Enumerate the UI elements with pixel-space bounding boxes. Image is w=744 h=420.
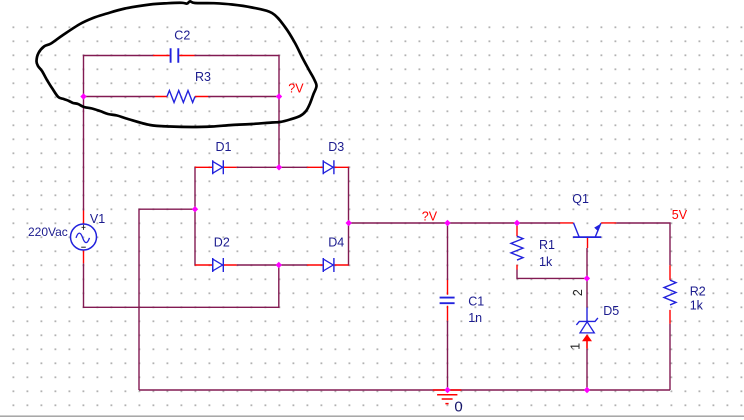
svg-text:2: 2	[571, 289, 585, 296]
junction node bridge right	[346, 220, 352, 226]
wire R3 row	[84, 96, 280, 98]
junction node bridge top	[276, 164, 282, 170]
wire top rail C2 row	[84, 55, 280, 57]
junction node Q1 base / D5 top	[584, 275, 590, 281]
svg-text:R2: R2	[690, 285, 706, 299]
wire Q1 collector to 5V rail	[616, 223, 670, 265]
resistor R3	[155, 91, 208, 103]
wire right rail below R2	[669, 324, 671, 390]
transistor Q1	[560, 223, 616, 248]
junction node at R3 right / ?V	[276, 93, 282, 99]
svg-text:Q1: Q1	[572, 192, 589, 206]
capacitor C2	[153, 48, 195, 62]
svg-text:1k: 1k	[539, 255, 553, 269]
wire bridge bottom segment	[237, 264, 307, 266]
wire bridge top segment	[237, 166, 307, 168]
bottom separator line	[0, 415, 744, 417]
AC source V1	[71, 211, 97, 264]
wire R1 bottom to Q1 base node	[517, 270, 587, 279]
svg-text:220Vac: 220Vac	[28, 225, 68, 239]
junction node ground	[444, 387, 450, 393]
wire bridge right rail	[348, 167, 350, 266]
diode D2	[195, 258, 237, 272]
svg-text:?V: ?V	[422, 209, 438, 223]
svg-text:D4: D4	[328, 236, 344, 250]
wire loop right rail	[278, 55, 280, 168]
diode D1	[195, 160, 237, 174]
svg-text:V1: V1	[90, 212, 105, 226]
svg-text:D3: D3	[328, 140, 344, 154]
wire C1 branch	[447, 223, 449, 390]
svg-text:0: 0	[454, 399, 462, 416]
resistor R2	[664, 265, 676, 323]
zener diode D5	[576, 308, 598, 349]
svg-text:C1: C1	[468, 294, 484, 308]
svg-text:R3: R3	[195, 70, 211, 84]
wire mid rail	[349, 222, 561, 224]
junction node D5 bottom	[584, 387, 590, 393]
svg-text:D5: D5	[603, 304, 619, 318]
svg-text:C2: C2	[174, 28, 190, 42]
svg-text:R1: R1	[539, 238, 555, 252]
svg-text:D1: D1	[216, 140, 232, 154]
diode D3	[307, 160, 349, 174]
capacitor C1	[440, 280, 455, 321]
svg-text:1: 1	[569, 343, 583, 350]
junction node C1 top	[444, 220, 450, 226]
diode D4	[307, 258, 349, 272]
junction node bridge left	[192, 206, 198, 212]
svg-text:1k: 1k	[690, 299, 704, 313]
wire D5 branch	[586, 278, 588, 390]
wire Q1 base lead lower	[586, 248, 588, 278]
wire bottom ground rail	[139, 389, 670, 391]
svg-text:5V: 5V	[672, 208, 688, 222]
junction node at R3 left	[80, 93, 86, 99]
junction node R1 top	[514, 220, 520, 226]
junction node bridge bottom	[276, 262, 282, 268]
wire from V1 bottom to bridge bottom node	[84, 263, 279, 307]
svg-text:?V: ?V	[288, 81, 304, 95]
resistor R1	[511, 224, 523, 270]
wire from bridge left node to bottom rail	[139, 209, 195, 390]
svg-text:D2: D2	[214, 236, 230, 250]
wire bridge left rail	[194, 167, 196, 266]
wire left rail	[83, 55, 85, 211]
ground	[433, 390, 462, 404]
svg-text:1n: 1n	[468, 311, 482, 325]
annotation ellipse (hand-drawn loop around C2 and R3)	[36, 1, 316, 127]
